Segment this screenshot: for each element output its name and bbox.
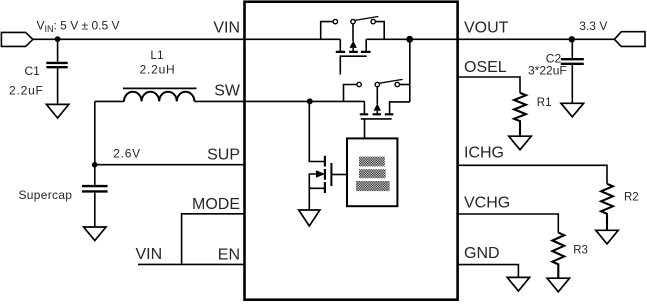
resistor R2 <box>601 184 613 230</box>
svg-text:Supercap: Supercap <box>19 188 73 202</box>
svg-text:OSEL: OSEL <box>464 59 507 76</box>
svg-text:VOUT: VOUT <box>464 20 509 37</box>
control block U2 <box>347 138 397 206</box>
svg-text:VIN: VIN <box>136 246 163 263</box>
svg-text:ICHG: ICHG <box>464 145 504 162</box>
wire SW inside <box>245 100 364 102</box>
wire VOUT node down to Q2 <box>409 39 411 102</box>
svg-text:MODE: MODE <box>192 196 240 213</box>
wire OSEL pin to R1 <box>457 77 520 93</box>
svg-text:2.6V: 2.6V <box>113 147 141 161</box>
hatch bar 1 <box>359 157 385 167</box>
svg-text:VCHG: VCHG <box>464 195 510 212</box>
output port tag VOUT <box>614 32 645 47</box>
wire EN pin <box>138 263 245 265</box>
ground (GND pin) <box>507 277 529 291</box>
svg-text:R3: R3 <box>573 245 588 257</box>
wire VIN input to pin <box>32 38 245 40</box>
capacitor Supercap <box>82 165 108 227</box>
wire VOUT pin to output tag <box>457 38 614 40</box>
node SW junction <box>307 98 313 104</box>
transistor Q2 (bypass PMOS with bulk switches) <box>344 79 410 138</box>
wire L1 to SW pin <box>194 100 245 102</box>
wire SUP node to SUP pin <box>95 164 245 166</box>
svg-text:EN: EN <box>218 246 240 263</box>
wire Q1 to VOUT node <box>366 38 457 40</box>
inductor L1 <box>123 88 197 101</box>
node VOUT output junction <box>569 36 575 42</box>
transistor Q3 (NMOS low-side) <box>309 101 347 209</box>
svg-text:R1: R1 <box>537 97 552 109</box>
ground (Supercap) <box>84 227 106 241</box>
svg-text:VIN: 5 V ± 0.5 V: VIN: 5 V ± 0.5 V <box>37 19 120 34</box>
ground (C2) <box>561 103 584 117</box>
ground (Q3 source) <box>299 210 320 226</box>
resistor R1 <box>514 93 526 136</box>
wire GND pin <box>457 265 518 277</box>
node VOUT inner junction <box>406 36 413 43</box>
hatch bar 3 <box>356 181 390 191</box>
svg-text:SW: SW <box>214 83 241 100</box>
svg-text:3.3 V: 3.3 V <box>579 19 607 33</box>
capacitor C2 <box>561 39 584 103</box>
transistor Q1 (high-side PMOS with bulk switches) <box>321 17 385 75</box>
ground (C1) <box>46 104 68 118</box>
svg-text:L1: L1 <box>150 48 164 62</box>
svg-text:C1: C1 <box>25 64 41 78</box>
svg-text:2.2uF: 2.2uF <box>9 84 44 98</box>
svg-text:SUP: SUP <box>207 146 240 163</box>
ground (R1) <box>509 136 531 150</box>
ground (R2) <box>596 230 618 244</box>
wire VCHG pin to R3 <box>457 214 558 233</box>
wire L1 left <box>95 100 124 102</box>
svg-text:GND: GND <box>464 245 500 262</box>
svg-text:3*22uF: 3*22uF <box>528 64 567 78</box>
svg-text:2.2uH: 2.2uH <box>139 62 175 76</box>
node VIN junction <box>55 36 61 42</box>
resistor R3 <box>552 233 564 278</box>
node SUP junction <box>92 162 98 168</box>
svg-text:R2: R2 <box>624 192 639 204</box>
wire VIN inside to Q1 <box>245 38 340 40</box>
wire ICHG pin to R2 <box>457 165 607 184</box>
capacitor C1 <box>46 39 67 104</box>
IC U1 body <box>245 2 458 300</box>
wire MODE pin <box>182 214 245 265</box>
hatch bar 2 <box>359 169 386 178</box>
input port tag VIN <box>1 32 33 46</box>
svg-text:VIN: VIN <box>213 20 240 37</box>
wire L1 down to SUP node <box>94 101 96 164</box>
ground (R3) <box>547 278 569 292</box>
